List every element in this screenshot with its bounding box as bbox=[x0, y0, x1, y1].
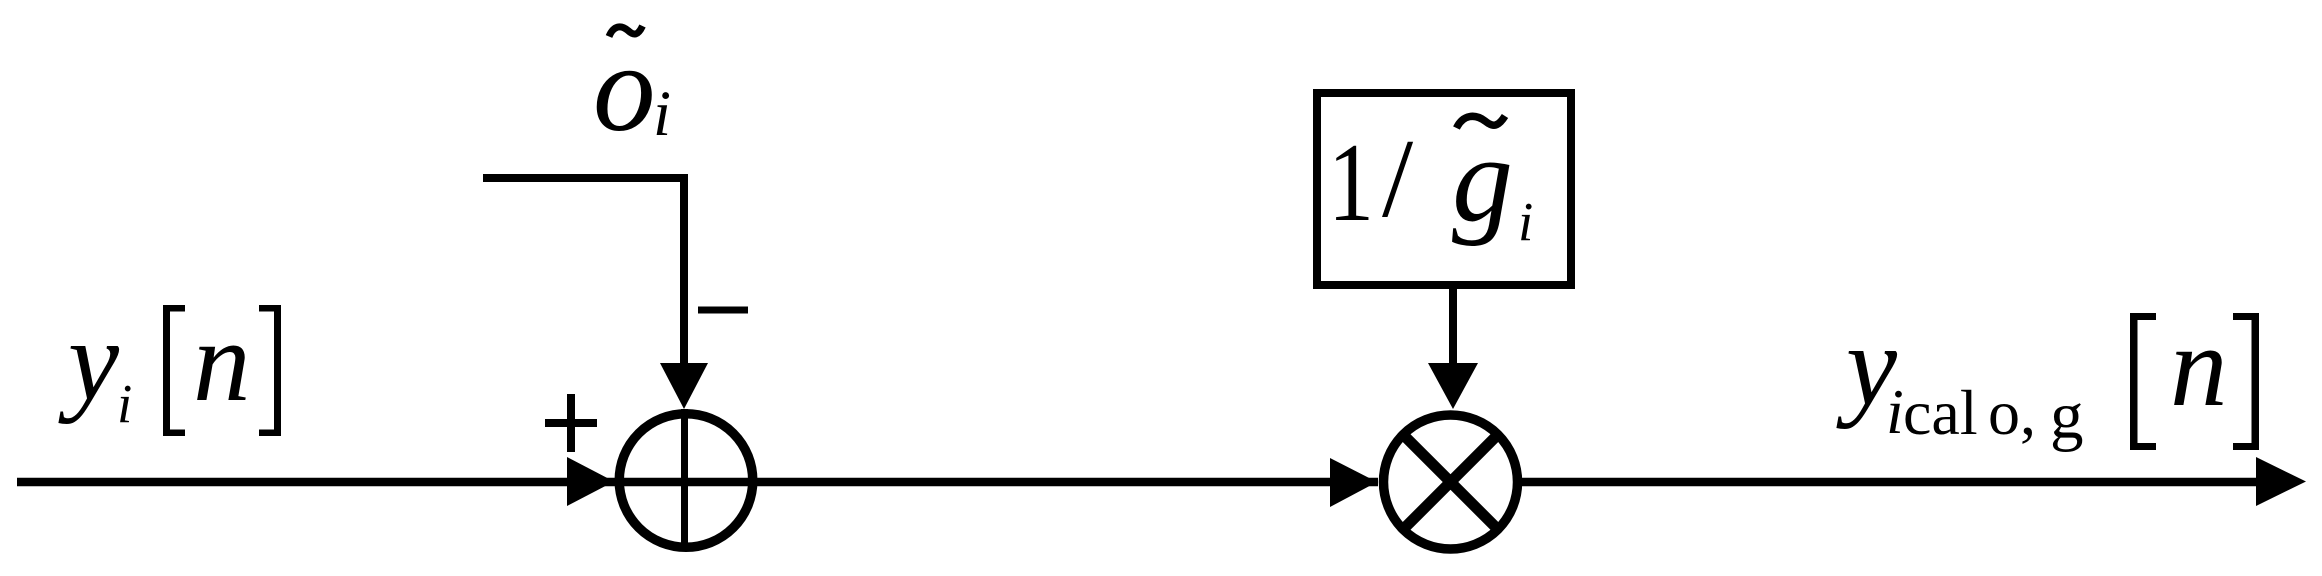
svg-text:i: i bbox=[653, 78, 671, 150]
output arrowhead bbox=[2256, 457, 2306, 506]
label g bbox=[1452, 112, 1513, 247]
wire multiplier to output bbox=[1520, 478, 2262, 487]
arrowhead into summer bbox=[567, 457, 614, 506]
label output subscript i bbox=[1886, 376, 1904, 447]
svg-text:/: / bbox=[1382, 117, 1414, 241]
label output n bbox=[2170, 303, 2228, 430]
svg-text:y: y bbox=[58, 297, 120, 424]
node plus sign bbox=[545, 394, 597, 452]
arrowhead into multiplier top bbox=[1428, 363, 1478, 409]
label output left bracket bbox=[2130, 313, 2156, 450]
wire summer to multiplier bbox=[612, 478, 1378, 487]
label o tilde bbox=[609, 26, 643, 37]
label y_i[n] y bbox=[58, 297, 120, 424]
svg-text:o,: o, bbox=[1988, 377, 2036, 448]
svg-text:g: g bbox=[2050, 379, 2084, 453]
label output right bracket bbox=[2233, 313, 2259, 450]
arrowhead into summer top bbox=[660, 363, 708, 409]
svg-text:i: i bbox=[117, 373, 132, 434]
svg-text:1: 1 bbox=[1328, 121, 1374, 245]
label 1 bbox=[1328, 121, 1374, 245]
wire offset stub horizontal bbox=[483, 174, 688, 182]
label output subscript cal bbox=[1903, 377, 1978, 448]
label y_i[n] n bbox=[193, 298, 251, 425]
wire main input line bbox=[17, 478, 612, 487]
svg-text:g: g bbox=[1452, 112, 1513, 247]
svg-text:n: n bbox=[2170, 303, 2228, 430]
multiplier M1 bbox=[1384, 415, 1518, 549]
label output subscript g bbox=[2050, 379, 2084, 453]
gain block box 1/g_i bbox=[1317, 93, 1571, 285]
arrowhead into multiplier left bbox=[1330, 458, 1377, 507]
label o_i o bbox=[593, 20, 656, 158]
summer vertical cross line bbox=[681, 409, 688, 550]
node minus sign bbox=[698, 307, 748, 314]
label output subscript o comma bbox=[1988, 377, 2036, 448]
label g tilde bbox=[1457, 116, 1506, 128]
svg-text:o: o bbox=[593, 20, 656, 158]
svg-text:cal: cal bbox=[1903, 377, 1978, 448]
wire offset stub vertical bbox=[680, 174, 688, 368]
label output y bbox=[1836, 302, 1898, 429]
svg-text:i: i bbox=[1886, 376, 1904, 447]
svg-text:i: i bbox=[1518, 191, 1533, 252]
label y_i[n] right bracket bbox=[259, 305, 281, 436]
wire box to multiplier bbox=[1449, 289, 1457, 368]
label g subscript i bbox=[1518, 191, 1533, 252]
svg-text:n: n bbox=[193, 298, 251, 425]
summing junction S1 bbox=[619, 414, 753, 548]
label o_i subscript i bbox=[653, 78, 671, 150]
label y_i[n] left bracket bbox=[163, 305, 185, 436]
label y_i[n] subscript i bbox=[117, 373, 132, 434]
label slash bbox=[1382, 117, 1414, 241]
